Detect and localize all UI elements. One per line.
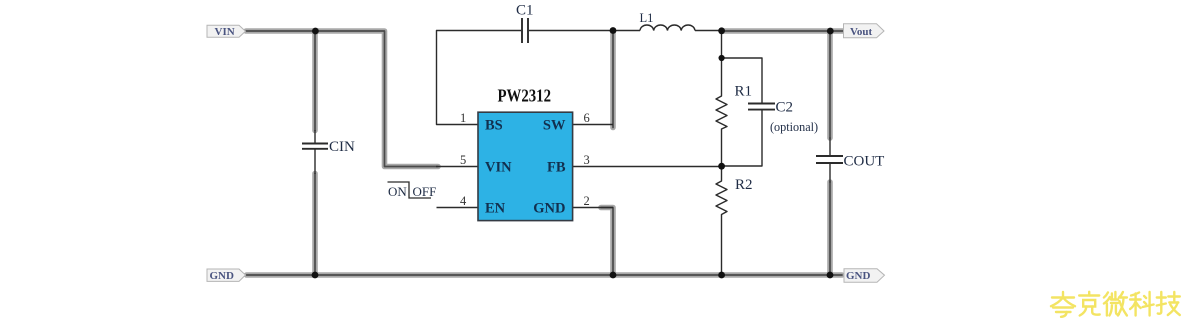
svg-text:1: 1 [460, 111, 466, 125]
svg-text:5: 5 [460, 153, 466, 167]
svg-text:FB: FB [547, 159, 566, 175]
svg-text:BS: BS [485, 117, 503, 133]
svg-text:C2: C2 [776, 100, 794, 116]
svg-text:VIN: VIN [215, 26, 235, 38]
svg-text:(optional): (optional) [770, 120, 818, 134]
svg-text:C1: C1 [516, 3, 534, 19]
svg-text:OFF: OFF [413, 184, 437, 199]
svg-text:SW: SW [543, 117, 566, 133]
svg-text:R1: R1 [735, 84, 753, 100]
svg-text:COUT: COUT [844, 154, 885, 170]
svg-text:VIN: VIN [485, 159, 512, 175]
svg-text:GND: GND [533, 200, 565, 216]
svg-text:EN: EN [485, 200, 506, 216]
svg-text:L1: L1 [640, 11, 654, 25]
svg-text:ON: ON [388, 184, 407, 199]
svg-text:2: 2 [584, 194, 590, 208]
svg-text:GND: GND [846, 270, 871, 282]
svg-text:R2: R2 [735, 177, 753, 193]
svg-text:3: 3 [584, 153, 590, 167]
svg-text:6: 6 [584, 111, 590, 125]
svg-text:CIN: CIN [329, 139, 355, 155]
svg-text:4: 4 [460, 194, 467, 208]
svg-text:GND: GND [210, 270, 235, 282]
svg-text:PW2312: PW2312 [498, 86, 552, 106]
svg-text:Vout: Vout [850, 26, 873, 38]
